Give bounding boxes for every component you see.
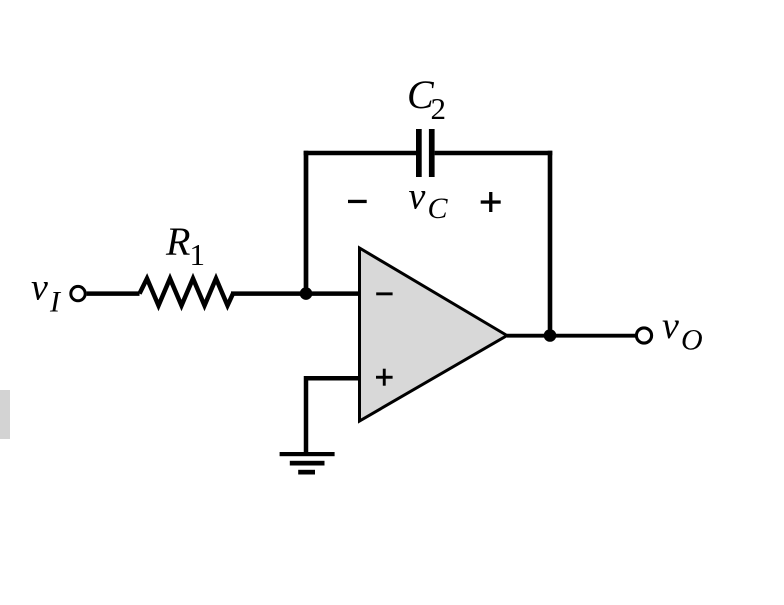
svg-text:C: C <box>428 192 449 225</box>
resistor R1 <box>140 279 234 306</box>
svg-text:2: 2 <box>431 91 447 126</box>
wire: feedback left vertical <box>304 151 309 294</box>
node A: inverting input junction <box>300 287 313 300</box>
svg-text:v: v <box>409 175 426 217</box>
terminal: input v_I <box>71 286 85 300</box>
wire: op-amp output <box>507 334 636 338</box>
label minus polarity of v_C <box>348 200 367 203</box>
svg-text:v: v <box>31 267 48 309</box>
svg-text:R: R <box>165 219 190 264</box>
wire: feedback top left segment <box>304 151 417 156</box>
svg-text:v: v <box>662 305 679 347</box>
svg-text:I: I <box>49 286 62 319</box>
wire: resistor to op-amp inverting input <box>231 291 360 296</box>
label plus polarity of v_C <box>481 192 501 212</box>
terminal: output v_O <box>636 328 651 343</box>
page-edge gray artifact bar <box>0 390 10 439</box>
wire: input terminal to resistor R1 <box>87 291 140 296</box>
wire: non-inverting input to ground <box>306 378 360 454</box>
label v_I <box>31 267 62 319</box>
label R1 <box>165 219 205 272</box>
ground <box>280 452 335 475</box>
op-amp U1 <box>360 248 508 421</box>
label C2 <box>407 72 446 126</box>
node B: output junction <box>544 329 557 342</box>
label v_O <box>662 305 703 357</box>
svg-text:O: O <box>681 324 703 357</box>
label v_C <box>409 175 449 225</box>
wire: feedback right vertical <box>548 151 553 336</box>
wire: feedback top right segment <box>435 151 553 156</box>
capacitor C2 <box>416 129 435 177</box>
svg-text:1: 1 <box>190 237 206 272</box>
